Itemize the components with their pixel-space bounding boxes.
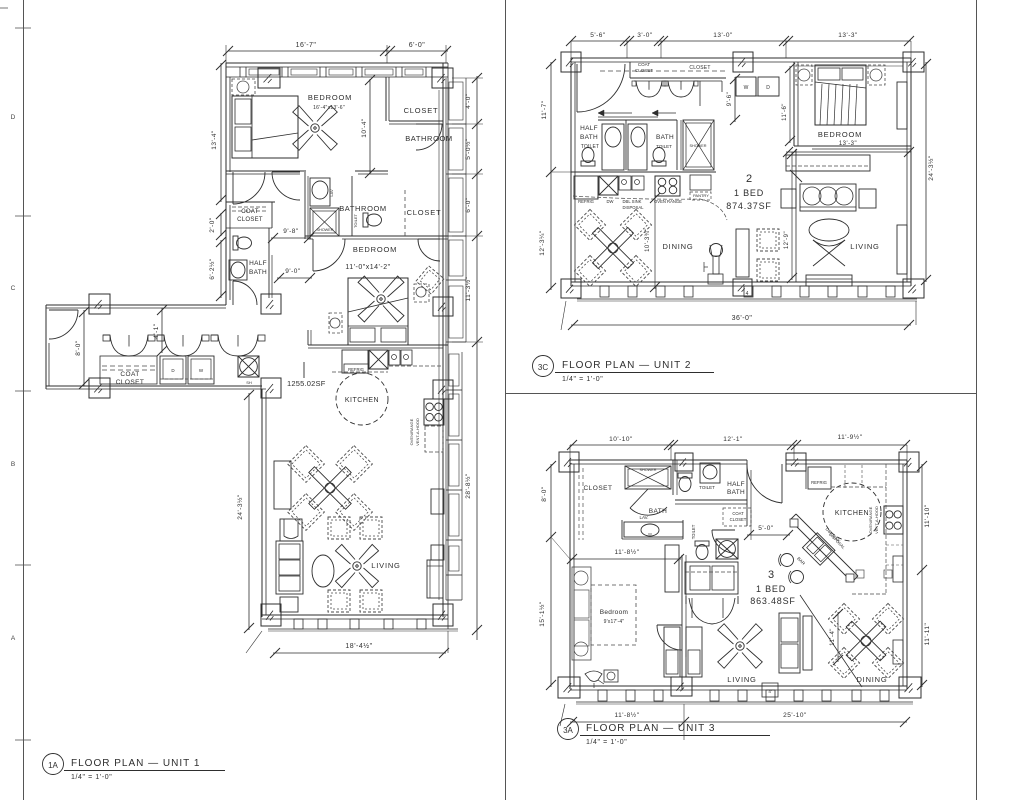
U3 kitchen right counter: [885, 487, 887, 594]
U3 column top-m2: [786, 453, 806, 471]
U1 top dim line: [228, 50, 448, 52]
U3 lav counter: [624, 522, 683, 537]
svg-text:A: A: [11, 635, 16, 642]
U3 column top-m1: [675, 453, 693, 471]
U1 coat closet upper walls: [226, 201, 275, 203]
U1 wing closet shelf dashed: [102, 365, 155, 367]
U2 title underline: [555, 372, 714, 374]
U3 shaft xbox: [716, 539, 738, 559]
U2 dim 11-6 inside: [789, 66, 791, 143]
svg-text:1/4" = 1'-0": 1/4" = 1'-0": [562, 376, 603, 383]
U2 kitchen counter edge dashed: [573, 196, 727, 220]
U2 bottom wall pilasters: [600, 286, 609, 297]
svg-text:8'-0": 8'-0": [541, 486, 548, 502]
U2 sofa: [800, 184, 856, 211]
U1 chaise right: [427, 560, 443, 598]
U2 refrigerator: [574, 176, 598, 199]
U3 left exterior wall: [569, 460, 571, 689]
svg-text:13'-4": 13'-4": [211, 130, 218, 150]
svg-text:11'-10": 11'-10": [924, 504, 931, 527]
U3 tall chairs pair: [664, 627, 680, 677]
U3 entry door: [781, 464, 783, 503]
U2 column top-right: [903, 52, 924, 72]
U3 right dims: [921, 464, 923, 687]
U2 bedroom door tick: [790, 170, 802, 182]
U2 right dim: [925, 62, 927, 282]
U1 oval coffee table: [312, 555, 334, 587]
svg-text:OVEN/RANGE: OVEN/RANGE: [409, 418, 414, 445]
svg-text:12'-9": 12'-9": [784, 231, 790, 249]
U2 vanity divider wall: [625, 120, 627, 170]
U1 toilet mid bathroom: [363, 213, 382, 227]
U1 washer dryer boxes: [160, 356, 186, 384]
U1 ceiling fan bedroom1: [277, 90, 353, 166]
U3 vanity below: [685, 562, 738, 594]
U2 bedroom bottom wall: [794, 145, 911, 147]
sheet border middle: [505, 0, 507, 800]
svg-text:D: D: [11, 114, 16, 121]
U3 bed dashed: [591, 585, 636, 645]
U1 bottom exterior wall band: [262, 614, 448, 616]
U3 column top-left: [559, 452, 579, 472]
svg-text:11'-6": 11'-6": [782, 103, 788, 121]
svg-text:BEDROOM: BEDROOM: [353, 245, 397, 254]
U2 bed: [815, 65, 866, 125]
U3 coat closet: [723, 508, 751, 526]
U2 bedroom dresser right: [897, 82, 907, 129]
svg-text:CLOSET: CLOSET: [635, 68, 653, 73]
svg-text:KITCHEN: KITCHEN: [835, 510, 869, 517]
U1 bed bedroom2: [348, 278, 408, 345]
svg-text:CLOSET: CLOSET: [407, 208, 442, 217]
U2 bedroom left wall: [793, 62, 795, 146]
U1 top wall window mullions: [239, 67, 241, 77]
U3 living fan: [702, 608, 778, 684]
U2 door swing arrows: [598, 112, 632, 114]
U1 bedroom2 door arc: [312, 239, 314, 271]
svg-text:COAT: COAT: [241, 209, 258, 215]
U3 sofa console: [803, 616, 812, 670]
U2 dbl sink: [619, 176, 631, 190]
U1 bottom wall pilasters: [294, 619, 303, 629]
svg-text:COAT: COAT: [120, 371, 139, 378]
U1 shower mid bathroom: [310, 208, 339, 236]
U1 living fan: [320, 529, 394, 603]
U1 right exterior wall: [442, 63, 444, 617]
svg-text:LIVING: LIVING: [727, 675, 756, 684]
U1 wing closet bifold doors: [103, 334, 110, 336]
U3 base cabinet squares: [856, 570, 864, 578]
U2 column top-mid: [733, 52, 753, 72]
svg-text:1255.02SF: 1255.02SF: [287, 379, 326, 388]
U1 kitchen sink xbox: [369, 350, 388, 369]
svg-text:11'-8½": 11'-8½": [615, 711, 640, 719]
U1 dining pinwheel table: [288, 446, 325, 483]
U3 bath toilet: [678, 473, 692, 492]
U1 mid bathroom left wall: [304, 172, 306, 239]
U1 kitchen wall: [308, 344, 448, 346]
U1 bedroom2 top wall: [305, 235, 448, 237]
U2 bottom console: [806, 275, 852, 286]
U2 halfbath toilet: [581, 148, 595, 167]
U3 bottom wall pilasters: [598, 690, 607, 701]
U1 closet wall vertical: [385, 77, 387, 121]
U3 top exterior wall: [570, 459, 747, 461]
U2 kitchen counter band: [571, 171, 716, 173]
U2 bath toilet: [652, 148, 666, 167]
U1 stove: [424, 399, 444, 425]
U2 right sideboard: [897, 225, 907, 274]
svg-text:874.37SF: 874.37SF: [726, 201, 771, 211]
U3 wc toilet: [695, 541, 709, 560]
U3 dim 11-8 inside: [570, 558, 681, 560]
svg-text:CLOSET: CLOSET: [404, 106, 439, 115]
svg-text:4'-0": 4'-0": [465, 93, 472, 109]
svg-text:HALF: HALF: [727, 481, 745, 488]
margin ticks: [15, 27, 31, 29]
svg-text:SH: SH: [246, 380, 252, 385]
U1 kitchen sink boxes: [389, 350, 400, 365]
U1 column right-low: [433, 380, 453, 399]
U2 bath vanity2: [628, 124, 647, 170]
U1 toilet half bath: [233, 236, 252, 250]
svg-text:10'-3¾": 10'-3¾": [645, 228, 651, 252]
svg-text:FLOOR PLAN — UNIT 2: FLOOR PLAN — UNIT 2: [562, 360, 691, 371]
U2 top wall inner line bedroom: [798, 65, 903, 67]
U2 column top-left: [561, 52, 581, 72]
svg-text:2: 2: [746, 173, 752, 185]
U3 wc door arc: [712, 529, 735, 531]
U1 title circle: [43, 754, 64, 775]
svg-text:C: C: [11, 285, 16, 292]
U2 coat closet walls: [629, 62, 631, 78]
U2 closet dashed shelf: [600, 70, 725, 72]
svg-text:10'-4": 10'-4": [361, 118, 368, 138]
U3 kitchen top counter: [805, 464, 807, 489]
svg-text:863.48SF: 863.48SF: [750, 596, 795, 606]
U2 round chair: [809, 219, 849, 241]
svg-text:TOILET: TOILET: [656, 144, 672, 149]
U1 kitchen counter dashed: [389, 365, 443, 367]
svg-text:5'-0": 5'-0": [758, 525, 774, 532]
U2 pantry: [690, 175, 711, 190]
U1 wing left wall: [45, 305, 47, 389]
svg-text:DW: DW: [607, 199, 614, 204]
svg-text:4': 4': [768, 689, 772, 694]
svg-text:D: D: [766, 85, 770, 91]
svg-text:CLOSET: CLOSET: [730, 517, 747, 522]
svg-text:REFRIG: REFRIG: [348, 367, 364, 372]
sheet border left: [23, 0, 25, 800]
U2 entry door arc: [576, 64, 578, 112]
svg-text:OVEN/RANGE: OVEN/RANGE: [868, 506, 873, 533]
U3 column bottom-left: [558, 677, 580, 698]
svg-text:9'-6": 9'-6": [727, 92, 733, 106]
U1 bedroom1 door arc: [232, 172, 234, 204]
svg-text:11'-0"x14'-2": 11'-0"x14'-2": [345, 264, 390, 271]
svg-text:5'-6": 5'-6": [590, 32, 606, 39]
svg-text:5'-0½": 5'-0½": [464, 138, 472, 160]
U3 sofa: [779, 613, 800, 673]
U3 bar end squares: [790, 519, 798, 527]
svg-text:4: 4: [746, 291, 749, 297]
U1 hall double door arc: [272, 171, 300, 173]
svg-text:15'-1½": 15'-1½": [538, 601, 546, 627]
U2 halfbath vanity1: [602, 124, 624, 170]
margin tick top-left: [0, 7, 8, 9]
U2 dim 9-6: [734, 77, 736, 122]
U3 bar stools: [781, 554, 794, 567]
U1 right sideboards: [431, 489, 444, 514]
svg-text:28'-8½": 28'-8½": [464, 473, 472, 499]
U1 column bottom-right: [433, 604, 453, 626]
svg-text:TOILET: TOILET: [353, 213, 358, 227]
svg-text:KITCHEN: KITCHEN: [345, 397, 379, 404]
U1 wing column NE: [261, 294, 281, 314]
U2 shower: [683, 120, 714, 170]
svg-text:16'-4"x13'-6": 16'-4"x13'-6": [313, 105, 345, 111]
svg-text:1 BED: 1 BED: [734, 188, 764, 198]
U3 double doors: [685, 596, 687, 604]
svg-text:BATH: BATH: [727, 489, 745, 496]
U1 left dim 6-2: [220, 240, 222, 298]
svg-text:BATHROOM: BATHROOM: [339, 204, 387, 213]
U1 armchair: [280, 519, 302, 541]
svg-text:9'-8": 9'-8": [283, 228, 299, 235]
svg-text:DINING: DINING: [856, 675, 887, 684]
U3 dining pinwheel: [828, 603, 859, 634]
svg-text:11'-7": 11'-7": [541, 100, 548, 119]
U1 wing bottom wall: [46, 385, 262, 387]
U3 window boxes right: [893, 556, 903, 582]
U1 ceiling fan bedroom2: [341, 259, 420, 338]
U1 dashed chairs low: [328, 590, 350, 612]
svg-text:HALF: HALF: [249, 260, 267, 267]
U1 closet bottom wall: [389, 120, 443, 122]
svg-text:6'-0": 6'-0": [465, 197, 472, 213]
U2 title circle: [533, 356, 554, 377]
U1 column top-left: [258, 68, 280, 88]
U3 title circle: [558, 719, 579, 740]
U3 dim 11-4: [837, 612, 839, 662]
U2 closet bifold doors: [636, 81, 649, 97]
U2 washer dryer: [736, 77, 756, 96]
svg-text:TOILET: TOILET: [581, 144, 600, 150]
U1 column bottom-left: [261, 604, 281, 626]
svg-text:W: W: [744, 85, 749, 91]
U3 left closet dashed: [578, 468, 580, 540]
U3 shower door arc: [630, 489, 648, 508]
svg-text:16'-7": 16'-7": [296, 42, 317, 49]
svg-text:LIVING: LIVING: [371, 561, 400, 570]
svg-text:12'-3¼": 12'-3¼": [539, 230, 546, 256]
U3 column top-right: [899, 452, 919, 472]
svg-text:DISPOSAL: DISPOSAL: [623, 205, 645, 210]
U2 console divider: [736, 229, 749, 277]
svg-text:9'-0": 9'-0": [285, 268, 301, 275]
U1 top wall window frames: [249, 69, 279, 75]
svg-text:36'-0": 36'-0": [732, 315, 753, 322]
U2 column bottom-right: [903, 279, 924, 298]
svg-text:BEDROOM: BEDROOM: [308, 93, 352, 102]
svg-text:25'-10": 25'-10": [783, 712, 807, 719]
svg-text:DBL SINK: DBL SINK: [623, 199, 642, 204]
svg-text:11'-9½": 11'-9½": [838, 433, 863, 441]
svg-text:COAT: COAT: [638, 62, 650, 67]
svg-text:REFRIG: REFRIG: [811, 480, 827, 485]
U1 lav half bath: [229, 260, 247, 280]
U2 bottom dim line: [571, 324, 911, 326]
U1 small table low: [280, 597, 298, 612]
U2 column bottom-left: [561, 279, 581, 298]
U1 bedroom2 closet dashed wall: [404, 190, 406, 236]
U1 right dim chain: [476, 76, 478, 640]
svg-text:24'-3½": 24'-3½": [927, 155, 935, 181]
U3 bedroom door arc: [657, 624, 682, 626]
U3 marker box A: [762, 683, 778, 697]
U1 lav mid bathroom: [310, 178, 330, 206]
U1 column top-right: [432, 68, 453, 88]
U3 right exterior wall: [906, 460, 908, 689]
U1 bathroom1 door arc: [416, 123, 442, 125]
svg-text:BATH: BATH: [580, 134, 598, 141]
U1 bed bedroom1: [232, 96, 298, 158]
U3 kitchen circle: [823, 483, 881, 541]
U1 nightstand bedroom2: [329, 313, 342, 333]
U1 bottom dim 18-4: [273, 652, 446, 654]
U2 dim 10-3 dining: [654, 196, 656, 289]
svg-text:LAV: LAV: [329, 189, 334, 197]
svg-text:CLOSET: CLOSET: [116, 379, 144, 386]
U1 living column NW: [261, 378, 281, 398]
U3 shower: [625, 466, 671, 489]
U1 wing entry door: [49, 309, 78, 311]
U1 wing column NW: [89, 294, 110, 314]
U1 wing top wall: [46, 304, 226, 306]
svg-text:FLOOR PLAN — UNIT 3: FLOOR PLAN — UNIT 3: [586, 723, 715, 734]
U1 dim 4-1 wing: [161, 308, 163, 353]
svg-text:9'x17'-4": 9'x17'-4": [604, 619, 625, 625]
svg-text:10'-10": 10'-10": [609, 436, 633, 443]
U3 bath walls: [672, 460, 674, 495]
svg-text:CLOSET: CLOSET: [237, 217, 263, 223]
U1 wing column SW: [89, 378, 110, 398]
svg-text:13'-0": 13'-0": [713, 32, 733, 39]
svg-text:4'-1": 4'-1": [153, 323, 160, 339]
U3 title underline: [580, 735, 770, 737]
U2 dim 12-9 living: [791, 152, 793, 280]
svg-text:VENT-A-HOOD: VENT-A-HOOD: [415, 418, 420, 446]
svg-text:FLOOR PLAN — UNIT 1: FLOOR PLAN — UNIT 1: [71, 758, 200, 769]
U2 bath hall wall: [676, 120, 678, 170]
svg-text:HALF: HALF: [580, 125, 598, 132]
U1 wing to halfbath door: [232, 281, 234, 305]
svg-text:SHOWER: SHOWER: [689, 144, 706, 148]
U2 bottom exterior wall band: [571, 281, 911, 283]
svg-text:24'-3½": 24'-3½": [236, 494, 244, 520]
U1 mid bathroom right wall: [351, 176, 353, 236]
svg-text:PANTRY: PANTRY: [693, 193, 709, 198]
svg-text:BATH: BATH: [249, 269, 267, 276]
U3 halfbath sink: [700, 463, 720, 483]
U1 dim 8-0 wing: [83, 310, 85, 386]
svg-text:11'-11": 11'-11": [924, 622, 931, 645]
svg-text:1/4" = 1'-0": 1/4" = 1'-0": [586, 739, 627, 746]
U1 shaft box: [238, 356, 259, 377]
U3 refrigerator: [808, 467, 831, 489]
U1 desk chair bedroom2: [416, 266, 444, 294]
U1 sideboard left: [274, 461, 291, 509]
U1 top exterior wall: [226, 62, 448, 64]
U1 refrigerator: [342, 350, 368, 373]
U1 right wall window inner frames: [449, 82, 463, 120]
svg-text:8'-0": 8'-0": [75, 340, 82, 356]
U2 living divider wall: [795, 149, 797, 282]
U2 top dim line: [571, 40, 911, 42]
U2 kitchen xbox: [599, 176, 618, 195]
svg-text:LIVING: LIVING: [850, 242, 879, 251]
U2 column bottom-mid: [733, 279, 752, 296]
svg-text:11'-4": 11'-4": [830, 628, 836, 646]
U1 half bath right wall: [268, 228, 270, 298]
svg-text:REFRIG: REFRIG: [578, 199, 594, 204]
svg-text:CLOSET: CLOSET: [583, 485, 612, 492]
U3 kitchen diag edge: [800, 595, 862, 687]
U3 counter divider dashes: [844, 465, 846, 489]
svg-text:Bedroom: Bedroom: [600, 609, 628, 616]
U2 dashed chairs: [757, 229, 779, 251]
U2 sofa end tables: [781, 189, 796, 208]
svg-text:SHOWER: SHOWER: [316, 228, 333, 232]
U3 bedroom wall: [681, 555, 683, 690]
svg-text:3'-0": 3'-0": [637, 32, 653, 39]
U3 bar counter: [790, 520, 852, 582]
svg-text:BEDROOM: BEDROOM: [818, 130, 862, 139]
svg-text:BATHROOM: BATHROOM: [405, 134, 453, 143]
svg-text:LAV.: LAV.: [639, 515, 648, 520]
U3 wardrobe rect: [665, 545, 679, 592]
U2 top exterior wall: [571, 57, 911, 59]
U2 floor lamp: [710, 244, 723, 257]
svg-text:13'-3": 13'-3": [838, 32, 858, 39]
U2 left dims: [550, 62, 552, 290]
U2 bath top walls: [598, 119, 677, 121]
svg-text:TOILET: TOILET: [699, 485, 715, 490]
U1 dashed chairs mid: [328, 517, 350, 539]
sheet border right: [976, 0, 978, 800]
U3 bar sink: [802, 533, 835, 566]
svg-text:3C: 3C: [538, 363, 548, 372]
U1 title underline: [64, 770, 225, 772]
U1 hall wall below bedroom1: [226, 170, 306, 172]
U3 desk chair symbol: [585, 671, 602, 682]
U3 bottom dim line: [570, 721, 907, 723]
svg-text:BATH: BATH: [656, 134, 674, 141]
U2 media console: [786, 155, 870, 171]
svg-text:3: 3: [768, 569, 774, 581]
svg-text:12'-1": 12'-1": [723, 436, 743, 443]
U1 column right-mid: [433, 297, 453, 316]
svg-text:DINING: DINING: [662, 242, 693, 251]
svg-text:1 BED: 1 BED: [756, 584, 786, 594]
svg-text:OVEN RANGE: OVEN RANGE: [654, 199, 682, 204]
U2 nightstands: [796, 65, 812, 85]
svg-text:6'-2½": 6'-2½": [208, 258, 216, 280]
svg-text:1/4" = 1'-0": 1/4" = 1'-0": [71, 774, 112, 781]
svg-text:TOILET: TOILET: [691, 524, 696, 539]
svg-text:BATH: BATH: [649, 508, 667, 515]
svg-text:1A: 1A: [48, 761, 58, 770]
